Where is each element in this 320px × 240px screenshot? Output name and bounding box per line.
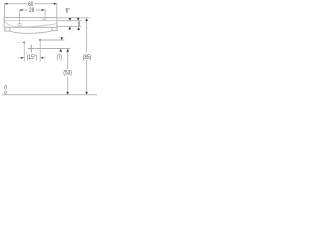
overflow dot <box>39 39 41 41</box>
small faint arrow right-pointing middle band <box>17 42 20 43</box>
floor level arrow <box>4 92 7 95</box>
svg-text:9: 9 <box>78 22 81 29</box>
arrow up at 9 column <box>77 27 80 30</box>
wall connection cross vertical <box>30 45 32 53</box>
arrow down dimension 7 <box>61 37 64 40</box>
bowl bottom level extension line (B) <box>57 25 81 27</box>
dimension (15deg) right arrow and tail <box>40 57 45 59</box>
overflow level line (C) <box>41 39 64 41</box>
basin curved underside <box>10 31 52 34</box>
svg-text:(15°): (15°) <box>27 54 38 61</box>
wall connection cross horizontal <box>28 47 35 49</box>
drain hole <box>18 23 21 25</box>
arrow up dimension 7 <box>59 49 62 52</box>
right foot tab <box>52 27 57 30</box>
svg-text:28: 28 <box>29 7 34 14</box>
svg-text:(7): (7) <box>57 55 63 62</box>
washbasin deck line <box>4 20 57 22</box>
arrow up at 6deg column <box>68 27 71 30</box>
dimension (53) bottom arrow <box>66 92 69 95</box>
svg-text:6°: 6° <box>66 8 70 15</box>
trap level extension line (D) <box>35 48 70 50</box>
floor line <box>2 94 97 96</box>
dimension (15deg) label <box>27 54 38 61</box>
arrow down at 9 column <box>77 18 80 21</box>
angle label 6 deg <box>66 8 70 15</box>
washbasin front view outline <box>4 18 57 28</box>
dimension 60 line <box>5 3 57 5</box>
dimension 28 extension line left (to drain) <box>19 9 21 23</box>
dimension (85) top arrow <box>85 18 88 21</box>
arrow down at 6deg column <box>69 18 72 21</box>
dimension (53) label <box>63 70 72 77</box>
dimension (85) bottom arrow <box>85 92 88 95</box>
dimension (15deg) line left tail and arrow <box>18 57 24 59</box>
dimension 60 extension line left <box>4 3 6 18</box>
deck level extension line (A) <box>57 20 81 22</box>
fixing line left vertical <box>23 43 25 61</box>
washbasin bowl hidden line <box>4 21 56 27</box>
dimension 28 line <box>19 9 44 11</box>
dimension 60 extension line right <box>56 3 58 18</box>
rim level extension line (top) <box>57 17 89 19</box>
wall connection cross arrows <box>29 46 34 51</box>
svg-text:(85): (85) <box>83 54 92 61</box>
dimension (53) top arrow <box>66 49 69 52</box>
dimension (85) vertical line <box>86 19 88 94</box>
svg-text:0: 0 <box>4 85 7 92</box>
dimension 28 extension line right (tap hole axis) <box>44 9 46 20</box>
left foot tab <box>5 27 10 31</box>
dimension (85) label <box>83 54 92 61</box>
dimension 60 label <box>28 2 33 9</box>
tap hole <box>43 18 45 20</box>
dimension 9 label <box>78 22 81 29</box>
small arrow left middle band <box>22 42 25 44</box>
floor level 0 label <box>4 85 7 92</box>
svg-text:(53): (53) <box>63 70 72 77</box>
dimension (7) label <box>57 55 63 62</box>
dimension 28 label <box>29 7 34 14</box>
fixing line right vertical <box>39 41 41 62</box>
dimension (53) vertical line <box>67 49 69 94</box>
